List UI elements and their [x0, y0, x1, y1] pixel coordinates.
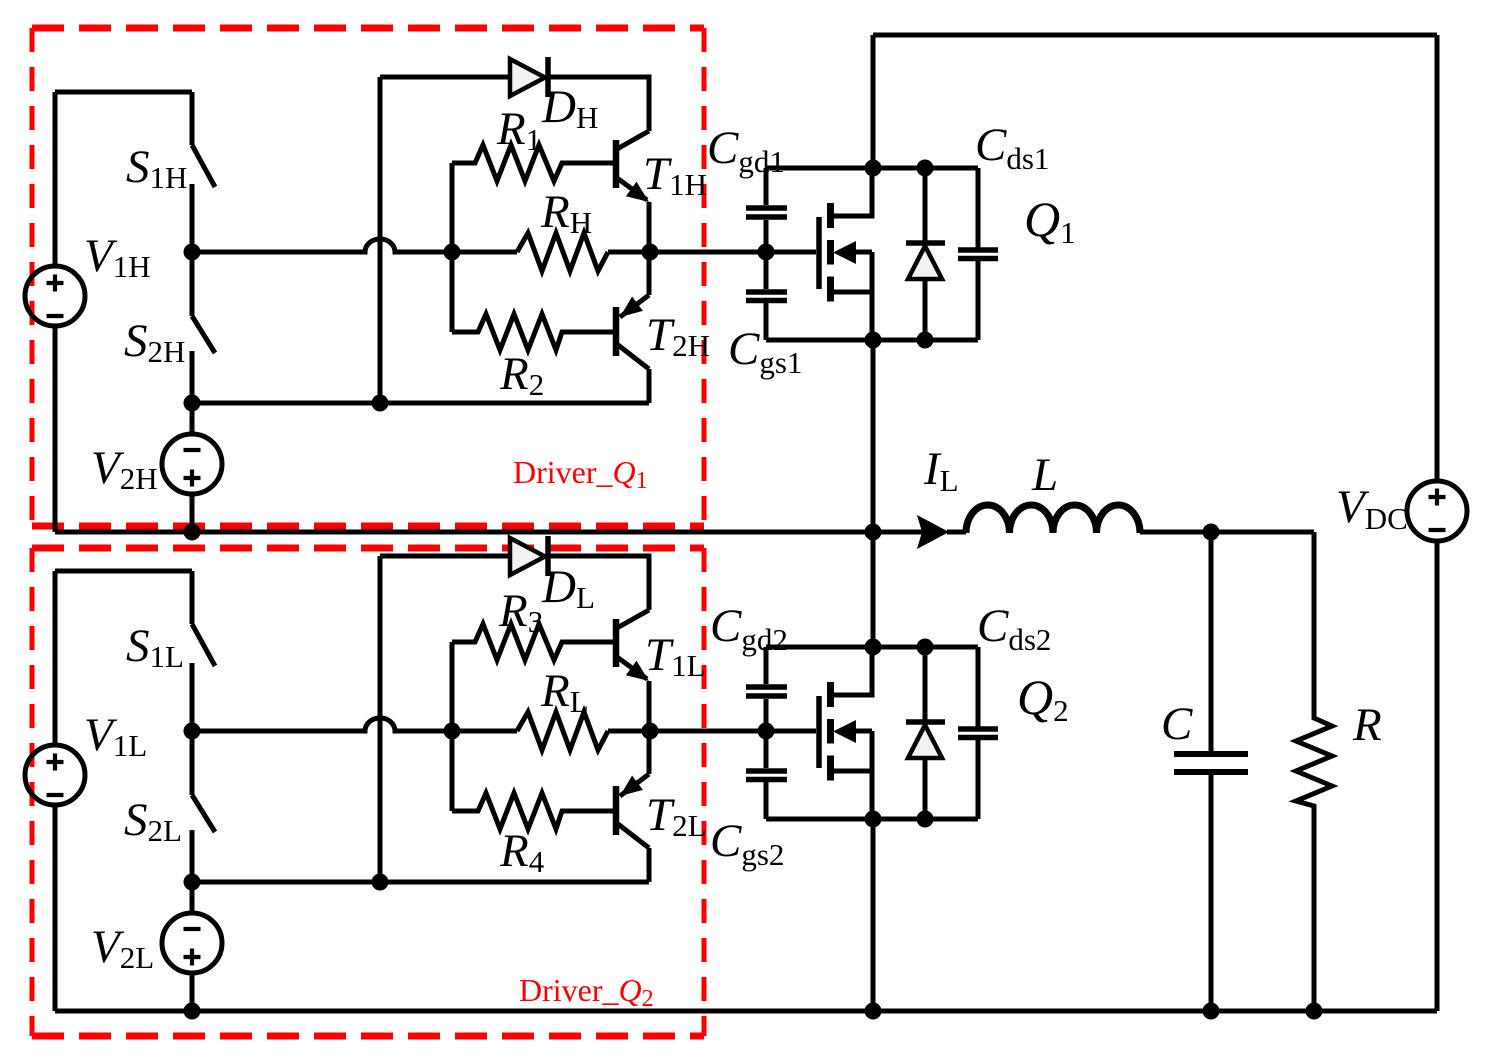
wire Q1 source to Q2 drain	[871, 340, 876, 647]
driver block Driver_Q1	[25, 57, 766, 541]
inductor L	[966, 505, 1140, 533]
capacitor C	[1174, 532, 1248, 1011]
arrow IL	[917, 515, 949, 549]
svg-text:Driver_Q2: Driver_Q2	[519, 972, 654, 1012]
node C top	[1203, 524, 1220, 541]
wire output rail	[1140, 530, 1314, 535]
wire top rail	[873, 33, 1437, 38]
node C bottom	[1203, 1003, 1220, 1020]
mosfet Q1 with Cgd1 Cgs1 Cds1	[746, 160, 998, 349]
voltage source VDC	[1407, 35, 1467, 1011]
node switch-node	[865, 524, 882, 541]
svg-text:C: C	[1161, 698, 1193, 750]
resistor R	[1296, 532, 1332, 1011]
node Q2 source ground	[865, 1003, 882, 1020]
wire switch-node rail	[55, 530, 966, 535]
dashed box Driver_Q2	[32, 548, 704, 1036]
svg-text:L: L	[1031, 449, 1058, 501]
node R bottom	[1306, 1003, 1323, 1020]
dashed box Driver_Q1	[32, 28, 704, 526]
wire Q1 drain riser	[871, 35, 876, 168]
wire ground rail	[55, 1009, 1437, 1014]
svg-text:R: R	[1352, 699, 1382, 751]
wire Q2 source to ground	[871, 819, 876, 1011]
mosfet Q2 with Cgd2 Cgs2 Cds2	[746, 639, 998, 828]
driver block Driver_Q2	[25, 536, 766, 1020]
svg-text:Driver_Q1: Driver_Q1	[513, 454, 648, 494]
